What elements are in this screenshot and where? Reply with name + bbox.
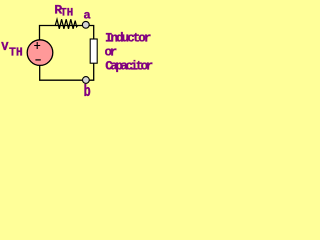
svg-text:a: a [83, 8, 91, 22]
svg-text:Capacitor: Capacitor [105, 59, 153, 73]
svg-text:Inductor: Inductor [105, 31, 151, 45]
svg-text:V: V [1, 40, 9, 54]
svg-text:or: or [105, 46, 117, 60]
svg-text:TH: TH [60, 7, 73, 19]
svg-text:TH: TH [9, 46, 23, 59]
svg-text:b: b [84, 84, 91, 100]
